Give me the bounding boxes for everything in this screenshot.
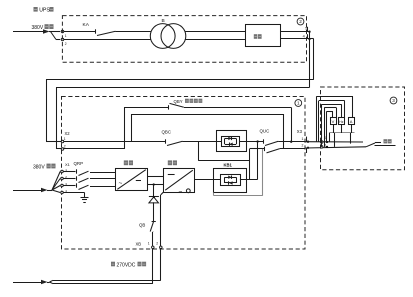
svg-text:X3: X3 (297, 129, 303, 134)
wire QB to XB-1 (152, 232, 154, 246)
under wire (198, 160, 249, 162)
svg-text:~: ~ (179, 189, 183, 196)
static switch module KB (inner) (222, 137, 240, 147)
rail2 (static bypass feed) (132, 114, 284, 116)
terminal X5-2 (61, 177, 64, 180)
riser pole2 feed (249, 149, 251, 180)
wire load bus 2 (305, 147, 366, 148)
meter tap U1 (316, 96, 318, 142)
wire DC bus bottom (148, 184, 164, 186)
wire QUC out 1 (278, 141, 305, 143)
label battery 270VDC (111, 262, 115, 267)
label inverter (168, 160, 172, 165)
node battery tap (153, 183, 155, 185)
wire inverter out (195, 179, 222, 181)
static switch module KB1 (inner) (221, 175, 241, 186)
svg-text:380V: 380V (33, 165, 45, 171)
terminal XB-2 (160, 246, 163, 249)
svg-text:270VDC: 270VDC (117, 262, 136, 268)
wire mains arrow top-left (13, 31, 43, 33)
riser inverter corner to XB-2 (161, 192, 164, 195)
svg-text:X1: X1 (65, 162, 71, 167)
label UPS feed (top-left) (34, 7, 38, 12)
wire X1-2 to transformer (64, 39, 151, 41)
tick exit 5 (307, 27, 309, 32)
ammeter A (349, 118, 355, 125)
contact QB (152, 221, 156, 223)
terminal X5-3 (61, 184, 64, 187)
wire QRP to rectifier 2 (90, 178, 116, 180)
svg-text:1: 1 (148, 242, 150, 246)
svg-text:1: 1 (297, 101, 300, 106)
wire regulator out 5 (280, 31, 309, 33)
frequency meter Hz (339, 118, 345, 125)
meter tap U5 (326, 111, 328, 142)
dashed box 1 (UPS unit) (62, 97, 306, 250)
wire load bus 1 (305, 141, 363, 143)
wire A from X2-1 (64, 141, 166, 143)
terminal X2-2 (61, 148, 64, 151)
inverter box (164, 169, 195, 193)
svg-text:1: 1 (302, 137, 304, 141)
contact KA (95, 29, 97, 33)
label rectifier (124, 160, 128, 165)
node bus2 (326, 146, 328, 148)
thyristor pair upper (225, 138, 236, 140)
svg-text:B: B (162, 18, 165, 24)
wire diode to QB (153, 202, 155, 221)
circled 1 (295, 100, 302, 107)
diode VD (149, 196, 159, 198)
meter bottom collector (329, 132, 355, 134)
svg-text:QRP: QRP (74, 161, 84, 166)
thyristor pair lower (225, 177, 236, 179)
node bus1 (326, 141, 328, 143)
svg-text:~: ~ (119, 180, 123, 187)
wire outer rail (46, 79, 314, 81)
wire input 2 (63, 178, 75, 180)
voltmeter V (331, 118, 337, 125)
terminal bus2 border (320, 146, 323, 149)
transformer B (150, 24, 175, 49)
node output border 1 (307, 141, 309, 143)
rail1 continues (184, 107, 291, 109)
terminal bus1 border (320, 141, 323, 144)
circled 3 (390, 97, 397, 104)
wire battery down 2 (160, 249, 162, 281)
contact QRP pole3 (76, 183, 78, 187)
wire case U-link (213, 193, 215, 196)
contact QRP pole2 (76, 176, 78, 180)
collector drops (329, 133, 331, 142)
inverter symbol (165, 170, 193, 190)
node rail1 join (290, 141, 292, 143)
wire mains arrow bottom (13, 190, 41, 192)
contact QUC pole1 (263, 139, 265, 143)
label regulator (254, 34, 258, 39)
wire QRP to rectifier 3 (90, 186, 116, 188)
wire inner rail (56, 87, 310, 89)
wire exit4 riser (310, 38, 314, 40)
wire input 4 to ground (63, 192, 84, 194)
tick output 1 (306, 137, 308, 142)
svg-text:Hz: Hz (339, 120, 343, 124)
meter tap U2 (318, 101, 320, 142)
node inverter join (256, 140, 258, 142)
svg-text:KB1: KB1 (224, 162, 233, 167)
svg-text:1: 1 (65, 34, 67, 38)
rectifier box (116, 169, 148, 191)
riser to rail1 (124, 107, 126, 149)
svg-text:1: 1 (64, 137, 66, 141)
svg-text:2: 2 (299, 19, 302, 24)
riser module2 output (257, 142, 259, 180)
terminal X1-1 (61, 30, 64, 33)
static switch module KB (outer) (217, 131, 247, 152)
wire module out (240, 141, 264, 143)
wire battery arrow (13, 282, 41, 284)
svg-text:QB: QB (139, 223, 145, 228)
wire DC bus top (148, 176, 164, 178)
wire battery drop (153, 185, 155, 197)
riser to rail2 (131, 114, 133, 142)
wire QBC to module (183, 141, 222, 143)
node exit 4 (308, 38, 310, 40)
svg-text:3: 3 (392, 98, 395, 103)
svg-text:4: 4 (303, 34, 305, 38)
wire exit5 riser (309, 32, 311, 88)
wire battery down 1 (152, 249, 154, 284)
wire QUC out 2 (280, 148, 305, 150)
terminal X2-1 (61, 140, 64, 143)
tick output 2 (306, 148, 308, 153)
svg-text:X2: X2 (65, 131, 71, 136)
label load (384, 139, 388, 143)
meter tap U3 (321, 104, 323, 147)
wire module KB1 out (240, 179, 258, 181)
wire pole2 left (250, 148, 266, 150)
svg-text:V: V (332, 119, 335, 124)
svg-text:UPS: UPS (39, 8, 50, 14)
svg-text:QBC: QBC (162, 130, 172, 135)
svg-text:KA: KA (83, 22, 90, 28)
svg-text:QUC: QUC (260, 129, 270, 134)
rectifier symbol (117, 170, 146, 190)
svg-text:QBY: QBY (174, 99, 183, 104)
wire drop to underwire (198, 142, 200, 161)
wire X1-1 to KA (64, 31, 95, 33)
wire transformer to regulator top (185, 31, 246, 33)
contact QBC (165, 139, 167, 143)
dashed box 3 (output panel) (321, 87, 405, 170)
wire B from X2-2 (64, 148, 124, 150)
tick exit 4 (307, 34, 309, 39)
svg-text:2: 2 (156, 242, 158, 246)
circled 2 (297, 18, 304, 25)
terminal XB-1 (152, 246, 155, 249)
svg-text:2: 2 (302, 144, 304, 148)
node exit 5 (308, 31, 310, 33)
wire input 1 (63, 171, 75, 173)
voltage regulator box (246, 25, 281, 47)
contact QRP pole1 (76, 169, 78, 173)
contact QBY (168, 105, 170, 109)
ground (84, 193, 86, 198)
static switch module KB1 (outer) (214, 169, 247, 193)
terminal X1-2 (61, 38, 64, 41)
svg-text:XB: XB (136, 241, 142, 246)
svg-text:A: A (350, 119, 353, 124)
dashed box 2 (bypass cabinet) (62, 16, 306, 63)
svg-text:2: 2 (65, 42, 67, 46)
terminal X5-4 (61, 191, 64, 194)
meter tap U4 (324, 108, 326, 147)
terminal X5-1 (61, 170, 64, 173)
svg-text:380V: 380V (32, 25, 44, 31)
rail1 maintenance bypass (124, 107, 168, 109)
wire KA to transformer (116, 31, 151, 33)
contact QUC pole2 (264, 147, 266, 151)
wire QRP to rectifier 1 (90, 172, 116, 174)
node output border 2 (307, 147, 309, 149)
wire transformer to regulator bottom (185, 39, 246, 41)
wire regulator out 4 (280, 38, 309, 40)
wire input 3 (63, 185, 75, 187)
